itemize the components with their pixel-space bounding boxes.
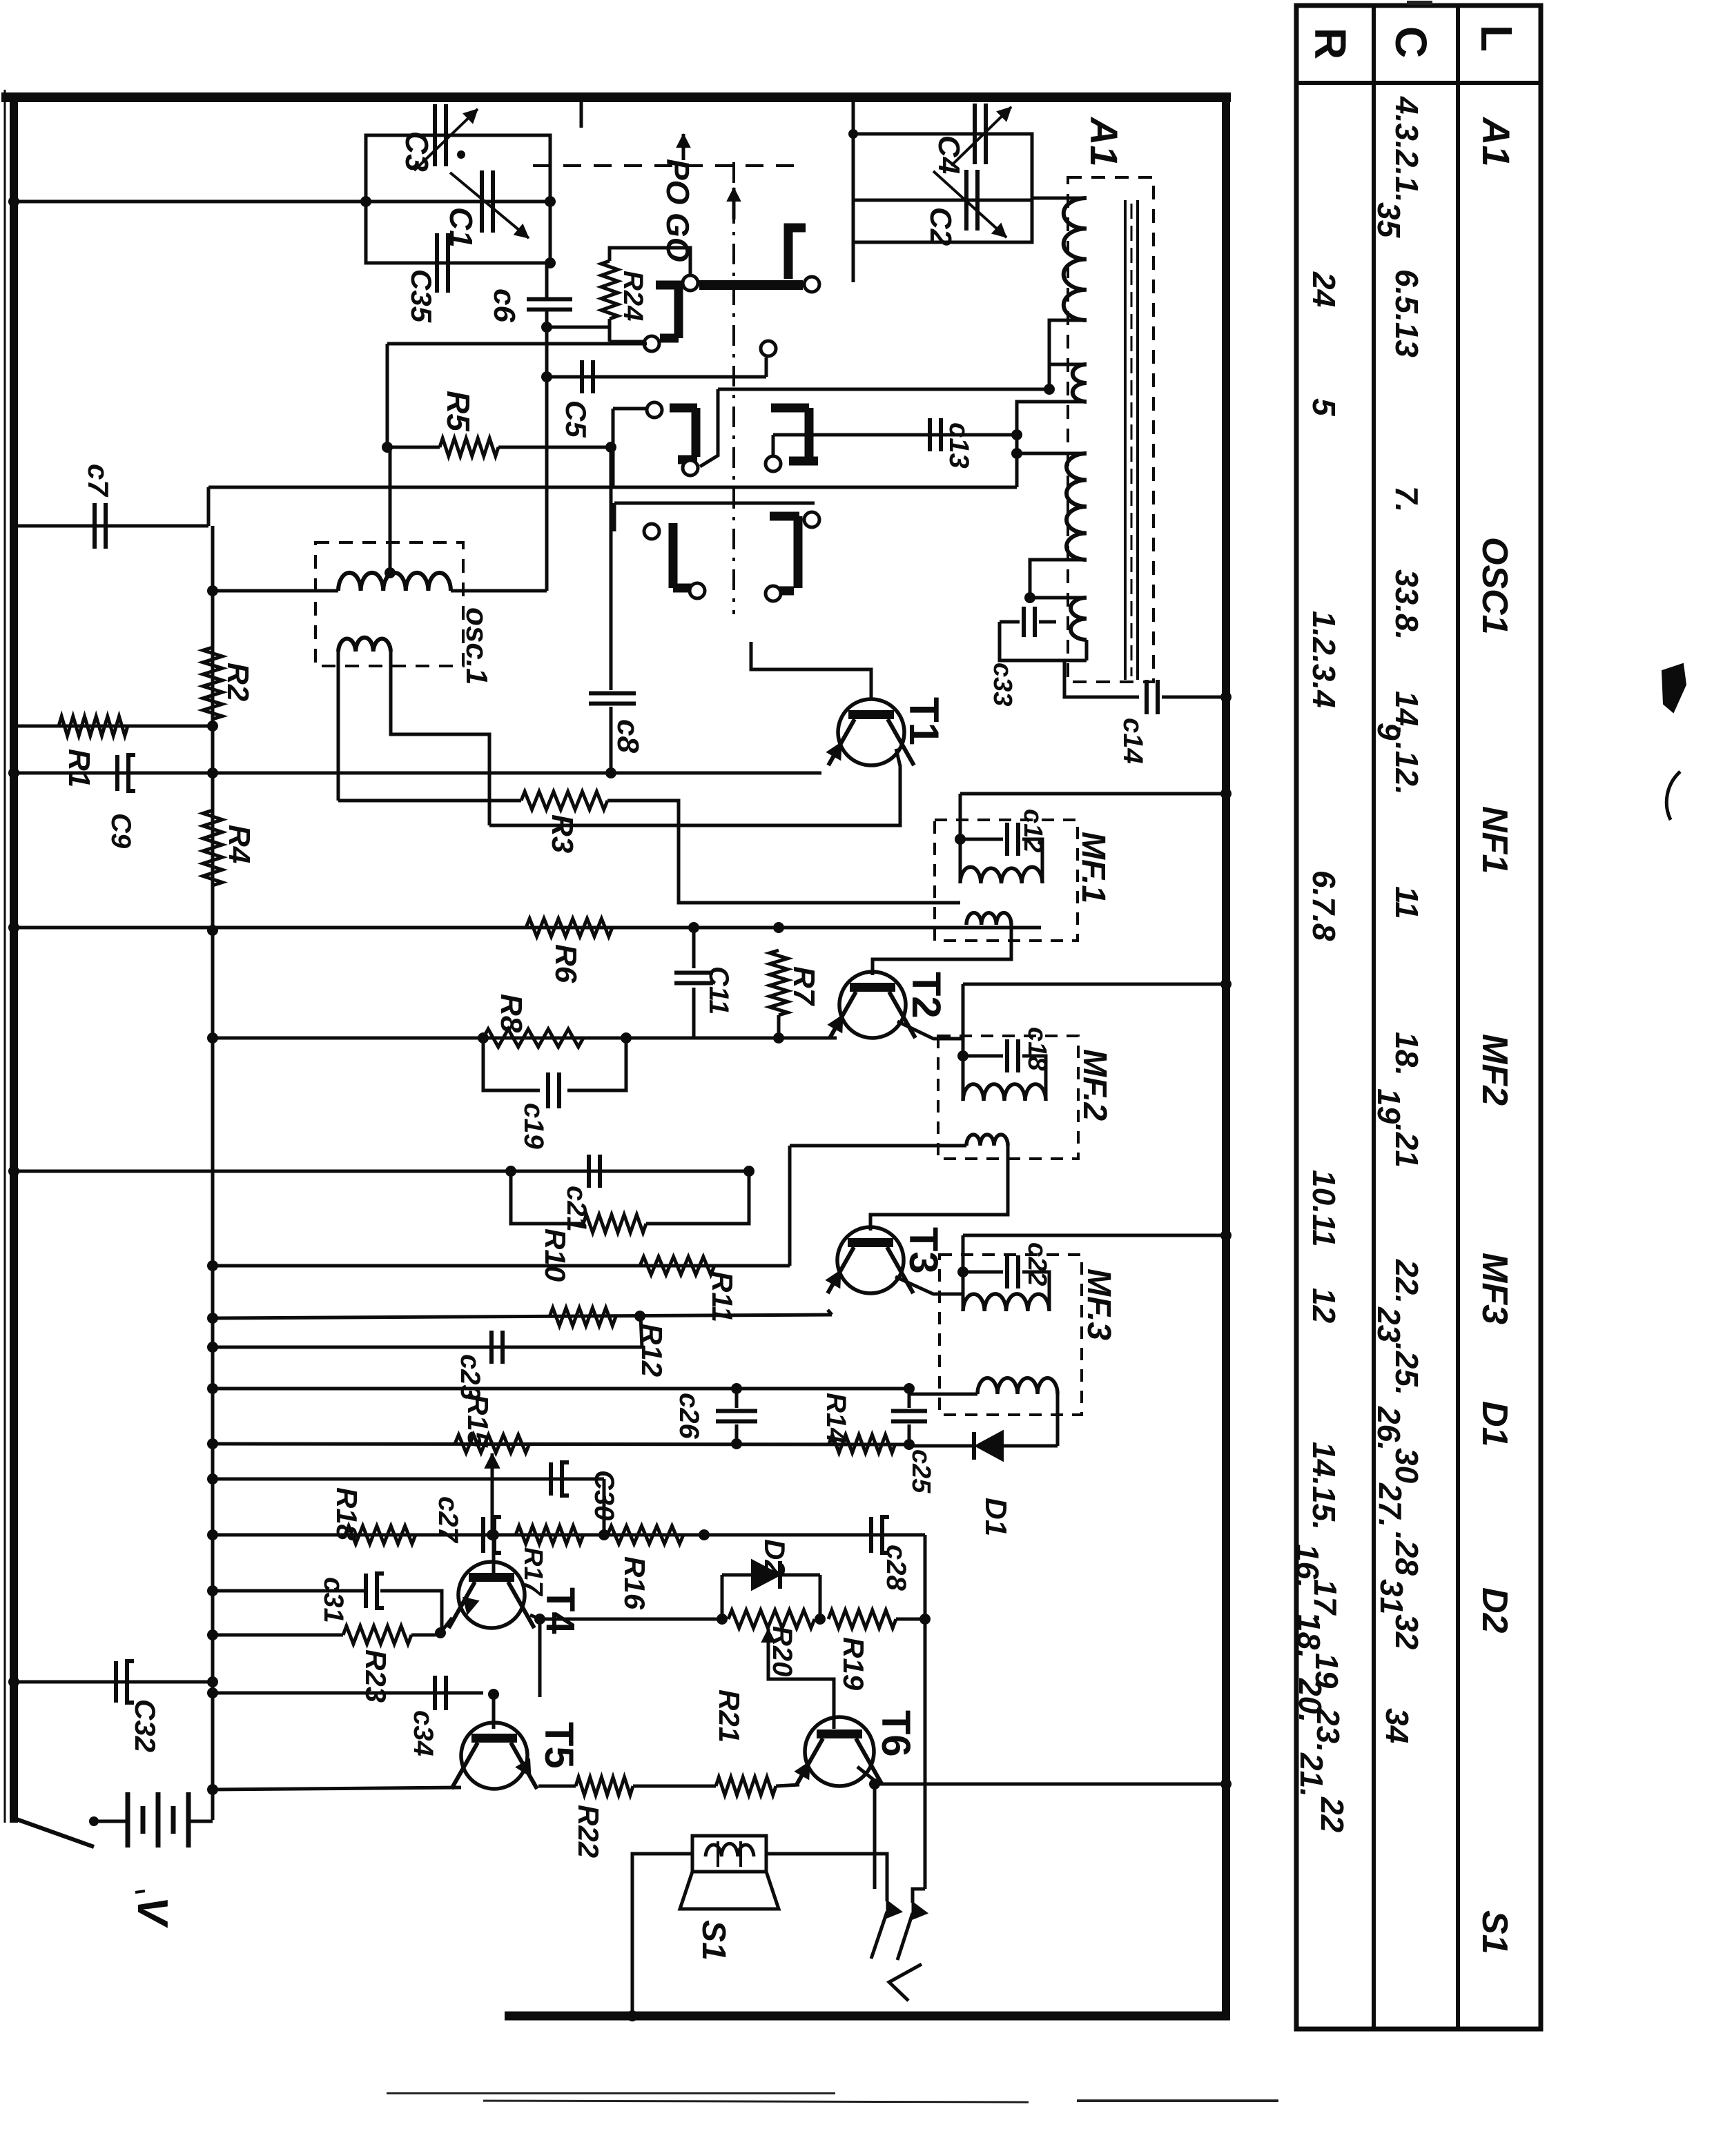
switch contact G2 [656, 285, 679, 338]
dash-dot switch axis [732, 162, 735, 614]
wire c33 down [1000, 622, 1087, 660]
battery lead left [94, 1820, 128, 1823]
svg-text:A1: A1 [1082, 116, 1126, 167]
wire t3 collector [895, 1277, 963, 1294]
resistor R18 [345, 1526, 416, 1544]
wire r20 wiper [768, 1677, 834, 1729]
wire mf2 feed [963, 983, 1226, 986]
svg-text:OSC1: OSC1 [1474, 537, 1515, 635]
wire R24 bottom [608, 319, 612, 342]
svg-text:MF3: MF3 [1474, 1253, 1515, 1324]
node osc tap [384, 567, 396, 578]
capacitor C3 variable [433, 104, 437, 166]
svg-text:R21: R21 [713, 1689, 746, 1743]
capacitor c13 [928, 418, 932, 451]
svg-text:c25: c25 [906, 1449, 935, 1493]
svg-text:T6: T6 [873, 1710, 918, 1757]
wire switch feed [387, 342, 647, 346]
wire t6 coll [857, 1767, 875, 1889]
node c5 left [541, 371, 552, 382]
svg-text:C3: C3 [399, 131, 435, 172]
wire d2 left [721, 1575, 724, 1619]
wire Y729 [614, 502, 815, 505]
wire C13 line [773, 433, 1017, 437]
svg-text:1.2.3.4: 1.2.3.4 [1306, 611, 1342, 708]
capacitor C4 variable [973, 104, 977, 164]
wire bus Y706 [208, 486, 1017, 489]
wire osc right [451, 589, 547, 593]
node c19 left [478, 1032, 489, 1043]
capacitor c27 [481, 1517, 485, 1553]
wire jack 2 [913, 1889, 925, 1903]
svg-text:22.: 22. [1389, 1259, 1425, 1304]
svg-text:MF.1: MF.1 [1075, 832, 1111, 903]
svg-text:c7: c7 [82, 464, 115, 497]
wire speaker right [766, 1854, 887, 1901]
node t4 base [488, 1529, 499, 1540]
node mf1 tap [955, 834, 966, 845]
wire t6 line [875, 1783, 1226, 1786]
wire C6 down [545, 310, 549, 591]
wire R3 line [338, 799, 521, 803]
svg-text:C5: C5 [560, 400, 592, 438]
frame right edge [1222, 92, 1230, 2020]
node coil junction [1044, 384, 1055, 395]
capacitor c28 [869, 1517, 873, 1553]
node mf3 tap [957, 1266, 968, 1277]
resistor R15 [455, 1435, 529, 1453]
wire Y564 [718, 388, 1049, 391]
svg-text:osc.1: osc.1 [460, 607, 494, 685]
capacitor c23 [489, 1331, 494, 1364]
node frame 1150 [1220, 788, 1232, 799]
node box bottom right [545, 257, 556, 268]
resistor R12 [549, 1308, 616, 1326]
speaker coil [705, 1843, 754, 1856]
svg-text:c14: c14 [1118, 718, 1148, 764]
node bus 2593 [207, 1784, 218, 1795]
OSC1 dashed box [315, 542, 463, 666]
node c33 node [1024, 592, 1035, 603]
transistor T3 [837, 1227, 904, 1293]
wire t4 emitter link [440, 1618, 452, 1633]
wire t4 collector [530, 1615, 540, 1697]
resistor R2 [203, 647, 222, 719]
svg-text:18.: 18. [1389, 1032, 1425, 1076]
capacitor c31 [364, 1574, 368, 1608]
speaker cone [680, 1872, 779, 1909]
coil MF2 secondary [966, 1135, 1008, 1146]
wire v561 [386, 344, 389, 447]
diode D2 [722, 1574, 752, 1577]
switch contact G1 [788, 228, 806, 279]
node speaker gnd [627, 2010, 638, 2021]
wire d1 up [1056, 1408, 1060, 1446]
wire bus Y1697 [14, 1170, 749, 1173]
node frame 2585 [1220, 1778, 1232, 1790]
wire v1144 [788, 1146, 792, 1266]
wire t5 base lead [492, 1694, 496, 1729]
node c26 top [731, 1383, 742, 1394]
svg-text:11: 11 [1389, 886, 1425, 919]
diode D1 [909, 1444, 975, 1448]
svg-text:24: 24 [1306, 271, 1342, 307]
svg-text:c12: c12 [1018, 809, 1047, 852]
wire t4 base lead [492, 1535, 496, 1574]
svg-text:R18: R18 [331, 1487, 363, 1541]
svg-text:c22: c22 [1022, 1242, 1051, 1286]
node r12 right [634, 1311, 645, 1322]
capacitor C35 [435, 233, 439, 293]
wire R3 to MF [607, 801, 960, 903]
capacitor C1 variable [480, 170, 484, 233]
speaker S1 box [692, 1836, 766, 1872]
node bus 2143 [207, 1473, 218, 1484]
resistor R14 [829, 1435, 895, 1453]
svg-text:MF2: MF2 [1474, 1034, 1515, 1106]
jack contact 2 [913, 1903, 926, 1919]
svg-text:L: L [1472, 25, 1521, 52]
resistor R16 [607, 1526, 683, 1544]
ink paren [1666, 772, 1680, 820]
transistor T2 [839, 972, 906, 1038]
coil L2 [1073, 364, 1087, 402]
node bus 2437 [207, 1676, 218, 1687]
node r15 stem [487, 1529, 498, 1540]
switch contact circle e [647, 402, 662, 418]
transistor T6 [805, 1717, 874, 1786]
resistor R1 [59, 716, 128, 736]
svg-text:V: V [128, 1897, 176, 1928]
resistor R20 [728, 1610, 815, 1628]
capacitor c22 loop [963, 1271, 1003, 1274]
resistor R6 [526, 919, 612, 937]
svg-text:c18: c18 [1022, 1027, 1051, 1071]
scan mark top [1407, 1, 1432, 5]
wire r22 to r21 [633, 1785, 716, 1788]
node r16 right [699, 1529, 710, 1540]
svg-text:.12.: .12. [1389, 742, 1425, 795]
resistor R23 [343, 1626, 411, 1644]
wire t3 emitter end [828, 1310, 832, 1315]
frame left edge [10, 92, 18, 1823]
svg-text:T1: T1 [901, 697, 947, 745]
switch contact circle f [683, 460, 698, 476]
svg-text:R1: R1 [62, 749, 96, 787]
capacitor c33 [1000, 620, 1020, 624]
resistor R11 [640, 1257, 714, 1275]
svg-text:R7: R7 [787, 966, 821, 1007]
svg-text:S1: S1 [695, 1920, 732, 1961]
wire c32 line [14, 1680, 213, 1684]
wire mf2 left lead [962, 984, 965, 1101]
wire bus Y1910 [213, 1315, 832, 1318]
wire c14 frame [1162, 696, 1226, 699]
jack lever mark [889, 1964, 922, 2001]
svg-text:19: 19 [1371, 1088, 1407, 1124]
frame top edge [1, 92, 1231, 102]
box C4 C2 [853, 134, 1032, 242]
frame outer thin left [4, 90, 6, 1823]
wire r12 drop [641, 1316, 642, 1347]
svg-text:14.15.: 14.15. [1306, 1442, 1342, 1530]
svg-text:A1: A1 [1474, 116, 1518, 167]
svg-text:R15: R15 [462, 1394, 494, 1448]
switch contact G4 [771, 404, 809, 413]
node r20 right [815, 1614, 826, 1625]
MF1 dashed box [935, 820, 1078, 941]
capacitor c12 loop [960, 838, 1003, 841]
node c25 top [904, 1383, 915, 1394]
node c11 top [688, 922, 699, 933]
svg-text:R6: R6 [549, 944, 583, 983]
wire R1 line [14, 725, 213, 728]
node mf2 tap [957, 1050, 968, 1061]
wire c31 line [213, 1589, 366, 1593]
resistor R7 [770, 950, 788, 1015]
wire bus Y2224 [213, 1533, 925, 1537]
resistor R3 [521, 792, 607, 810]
node bus 1910 [207, 1313, 218, 1324]
table header line [1296, 81, 1541, 85]
svg-text:R16: R16 [619, 1556, 651, 1610]
switch contact circle g [766, 456, 781, 471]
svg-text:6.5.13: 6.5.13 [1389, 269, 1425, 357]
svg-text:MF.2: MF.2 [1076, 1049, 1113, 1121]
capacitor c21 [587, 1155, 591, 1188]
switch contact G6 [770, 512, 799, 521]
svg-text:R: R [1305, 28, 1355, 59]
wire bus Y292 [14, 200, 366, 204]
table outer [1296, 6, 1541, 2029]
switch contact circle d [761, 341, 776, 356]
resistor R19 [828, 1610, 896, 1628]
wire c5 corner [765, 357, 768, 377]
svg-text:R23: R23 [360, 1649, 392, 1703]
svg-text:C4: C4 [932, 135, 966, 174]
wire mf1 left lead [959, 794, 962, 883]
svg-text:D2: D2 [1474, 1587, 1515, 1634]
node c21 right [743, 1166, 755, 1177]
svg-text:7.: 7. [1389, 486, 1425, 512]
node coil3 [1011, 448, 1022, 459]
node bus-osc [207, 585, 218, 596]
resistor R17 [516, 1526, 583, 1544]
node bus 2092 [207, 1438, 218, 1449]
wire bus Y2092 [213, 1444, 909, 1444]
svg-text:4.3.2.1.: 4.3.2.1. [1389, 96, 1425, 202]
svg-text:.25.: .25. [1389, 1342, 1425, 1395]
wire mf3 sec right [1056, 1394, 1060, 1408]
wire T1 emitter bus [14, 772, 821, 775]
capacitor c25 [891, 1409, 927, 1413]
node frame 1344 [8, 922, 19, 933]
capacitor c18 loop [963, 1055, 1003, 1058]
svg-text:T3: T3 [901, 1227, 946, 1274]
wire c30 drop [603, 1479, 606, 1535]
svg-text:C2: C2 [924, 207, 957, 246]
node c8 bottom [605, 767, 616, 778]
wire T1 base line [751, 642, 871, 698]
wire T1 collector [489, 749, 900, 825]
transistor T5 [461, 1723, 527, 1789]
switch contact circle h [644, 524, 659, 539]
wire switch mid link [613, 407, 647, 411]
resistor R24 [601, 261, 618, 319]
svg-text:26.: 26. [1371, 1406, 1407, 1451]
node bus 1834 [207, 1260, 218, 1271]
svg-text:T4: T4 [538, 1587, 583, 1634]
node bus 1952 [207, 1342, 218, 1353]
wire osc sec left [337, 651, 340, 801]
node box right [545, 196, 556, 207]
svg-text:30: 30 [1389, 1448, 1425, 1484]
resistor R10 [583, 1215, 646, 1233]
ink blob [1662, 664, 1686, 712]
transistor T1 [838, 699, 904, 765]
svg-text:R8: R8 [494, 994, 528, 1033]
svg-text:C9: C9 [106, 813, 136, 849]
svg-text:34: 34 [1379, 1708, 1415, 1743]
wire c8 down [610, 707, 613, 773]
svg-text:33.8.: 33.8. [1389, 569, 1425, 640]
node frame 1697 [8, 1166, 19, 1177]
node bus 2453 [207, 1687, 218, 1698]
switch contact circle c [804, 277, 819, 292]
svg-text:c6: c6 [487, 288, 521, 322]
node t4 coll [534, 1614, 545, 1625]
svg-text:C32: C32 [129, 1699, 162, 1752]
antenna A1 dashed box [1068, 177, 1153, 682]
wire C9 line [14, 772, 213, 775]
node frame c9 [8, 767, 19, 778]
capacitor C11 [692, 928, 696, 968]
wire mf2 sec left [790, 1144, 966, 1148]
node C6 junction [541, 322, 552, 333]
coil MF2 primary [963, 1084, 1046, 1101]
pot R15 arrow [491, 1453, 494, 1535]
wire coil3 bottom [1030, 560, 1087, 598]
wire bus Y2012 [213, 1387, 909, 1391]
svg-text:23: 23 [1371, 1306, 1407, 1343]
wire box2 drop [852, 242, 855, 282]
svg-text:T2: T2 [904, 972, 948, 1019]
wire d2 right [819, 1575, 822, 1619]
switch contact circle b [644, 336, 659, 351]
svg-text:C: C [1386, 26, 1436, 58]
gang dashed link [533, 164, 801, 167]
node R1 bus [207, 721, 218, 732]
wire v885 [610, 447, 613, 690]
switch lever [17, 1819, 94, 1847]
wire bus Y1344 [14, 926, 1041, 930]
vertical bus left [211, 526, 215, 1820]
svg-text:27.: 27. [1372, 1482, 1408, 1527]
transistor T4 [458, 1562, 525, 1628]
switch contact circle j [804, 512, 819, 527]
capacitor C6 [527, 297, 572, 302]
wire c23 line [213, 1346, 642, 1349]
switch contact circle k [766, 586, 781, 601]
capacitor C9 [115, 755, 119, 791]
svg-text:c19: c19 [518, 1103, 549, 1149]
switch thick bar top [699, 280, 803, 290]
scan line 2 [483, 2101, 1029, 2102]
coil OSC secondary [338, 638, 391, 651]
wire mf3 left lead [962, 1235, 965, 1311]
wire bus Y1834 [213, 1264, 790, 1268]
node d1 node [904, 1439, 915, 1450]
capacitor C2 variable [964, 170, 968, 231]
PO GO arrow [682, 134, 685, 160]
node c30 bottom [598, 1529, 610, 1540]
svg-text:c26: c26 [674, 1393, 704, 1439]
wire t2 collector [897, 1021, 963, 1039]
svg-text:32: 32 [1389, 1614, 1425, 1650]
wire r19 right [896, 1618, 925, 1621]
wire mf2 sec right [870, 1146, 1008, 1231]
node r5 left [382, 442, 393, 453]
coil MF3 primary [963, 1294, 1049, 1311]
node R2 bottom [207, 767, 218, 778]
scan line 1 [387, 2093, 835, 2095]
node box left [360, 196, 371, 207]
axis arrow [732, 188, 736, 219]
svg-text:R5: R5 [440, 391, 476, 432]
wire bus Y1504 [213, 1037, 837, 1040]
capacitor c14 [1145, 680, 1149, 714]
svg-text:35: 35 [1371, 202, 1407, 239]
svg-text:R19: R19 [837, 1637, 870, 1691]
svg-text:S1: S1 [1474, 1910, 1515, 1954]
node bus 2012 [207, 1383, 218, 1394]
svg-text:R4: R4 [222, 825, 256, 863]
node frame 1426 [1220, 979, 1232, 990]
node box2 tl [848, 129, 858, 139]
wire speaker left [632, 1854, 692, 2016]
resistor R22 [576, 1777, 633, 1795]
svg-text:D1: D1 [979, 1498, 1013, 1536]
node frame 1790 [1220, 1230, 1232, 1241]
wire to c14 [1064, 660, 1139, 697]
wire box to C6 [545, 263, 549, 299]
node c21 left [505, 1166, 516, 1177]
capacitor c7 [93, 503, 97, 549]
svg-text:D2: D2 [759, 1539, 791, 1576]
wire t5 left [213, 1787, 461, 1790]
MF2 dashed box [938, 1036, 1078, 1159]
node frame y292 [8, 196, 19, 207]
wire corner c7 up [207, 487, 211, 526]
wire mf3 feed [963, 1234, 1226, 1237]
jack contact 1 [887, 1901, 901, 1917]
battery V [126, 1792, 130, 1848]
capacitor C32 [114, 1661, 118, 1703]
node t6 coll [869, 1778, 880, 1790]
wire C5 line [547, 375, 766, 379]
tuning box C3 C1 C35 [366, 135, 550, 263]
switch contact G5 [669, 523, 678, 588]
svg-text:c33: c33 [988, 663, 1017, 706]
switch contact circle i [690, 583, 705, 598]
battery lead right [188, 1820, 213, 1823]
svg-text:c28: c28 [881, 1545, 911, 1591]
wire frame drop [852, 101, 855, 134]
svg-text:NF1: NF1 [1474, 806, 1515, 874]
svg-text:c27: c27 [433, 1496, 463, 1543]
svg-text:c8: c8 [611, 719, 645, 753]
svg-text:c31: c31 [318, 1577, 349, 1623]
